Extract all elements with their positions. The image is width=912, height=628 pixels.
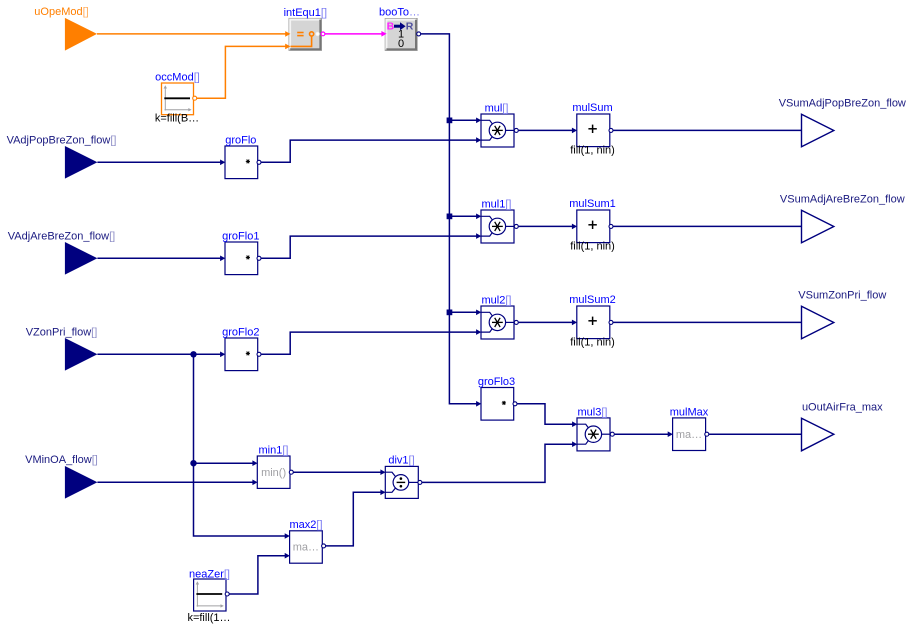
svg-text:uOpeMod[]: uOpeMod[] [34,6,88,18]
svg-text:ma…: ma… [293,542,319,554]
pin booTo.u arrow [381,31,386,37]
svg-text:ma…: ma… [676,429,702,441]
wire occMod.y to intEqu1.u2 (orange) [197,46,289,98]
output connector uOutAirFra_max [802,402,884,451]
block groFlo1 [220,230,261,274]
svg-text:mulMax: mulMax [670,406,709,418]
svg-text:k=fill(1…: k=fill(1… [187,612,230,624]
svg-text:R: R [406,21,414,33]
pin booTo.y port [417,32,421,36]
output connector VSumAdjAreBreZon_flow [780,194,905,243]
svg-text:VSumAdjAreBreZon_flow: VSumAdjAreBreZon_flow [780,194,905,206]
svg-text:groFlo: groFlo [225,134,256,146]
svg-text:div1[]: div1[] [388,455,414,467]
svg-text:mul2[]: mul2[] [482,294,512,306]
input connector VZonPri_flow[] [26,327,98,371]
block mulMax [668,406,709,450]
svg-text:occMod[]: occMod[] [155,71,200,83]
svg-text:groFlo2: groFlo2 [222,326,259,338]
svg-text:VSumAdjPopBreZon_flow: VSumAdjPopBreZon_flow [779,98,906,110]
wire mul.y to mulSum.u [519,129,575,131]
wire neaZer.y to max2.u2 [229,556,287,594]
block mulSum1 [569,198,615,252]
block mul1[] [476,198,518,243]
input connector VAdjPopBreZon_flow[] [7,135,117,179]
svg-text:min1[]: min1[] [259,444,289,456]
block groFlo [220,134,261,178]
wire VZonPri branch down to max2.u1 [194,354,288,536]
wire max2.y to div1.u2 [326,492,383,546]
svg-text:fill(1, nin): fill(1, nin) [570,145,615,157]
input connector VMinOA_flow[] [25,454,98,498]
block occMod[] (constant source, orange) [155,71,200,124]
wire VAdjPopBreZon to groFlo.u [97,161,222,163]
block max2[] [285,519,326,563]
wire groFlo3.y to mul3.u1 [517,404,574,424]
wire booTo.y bus down to groFlo3.u (navy) [421,34,479,404]
wire uOpeMod to intEqu1.u1 (orange) [97,33,289,35]
block mul2[] [476,294,518,339]
wire VAdjAreBreZon to groFlo1.u [97,257,222,259]
wire mulSum.y to VSumAdjPopBreZon_flow [613,129,801,131]
svg-text:min(): min() [261,467,286,479]
pin intEqu1.u2 arrow [285,44,290,50]
wire min1.y to div1.u1 [293,471,383,473]
svg-text:B: B [387,21,395,33]
output connector VSumZonPri_flow [798,290,886,339]
pin intEqu1.y port [321,32,325,36]
svg-text:booTo…: booTo… [379,7,420,19]
block neaZer[] (constant source) [187,568,230,623]
wire branch bus to mul1.u1 [449,215,478,217]
block mulSum [570,102,615,156]
input connector uOpeMod[] [34,6,97,51]
svg-text:mulSum: mulSum [572,102,612,114]
svg-text:max2[]: max2[] [289,519,322,531]
wire branch to min1.u1 [194,462,255,464]
wire mulSum2.y to VSumZonPri_flow [613,321,801,323]
block mulSum2 [569,294,615,348]
block min1[] [252,444,293,488]
svg-text:VAdjAreBreZon_flow[]: VAdjAreBreZon_flow[] [8,231,115,243]
svg-text:groFlo1: groFlo1 [222,230,259,242]
svg-text:mul3[]: mul3[] [578,406,608,418]
pin intEqu1.u1 arrow [285,31,290,37]
wire mulMax.y to uOutAirFra_max [709,433,802,435]
svg-text:VZonPri_flow[]: VZonPri_flow[] [26,327,98,339]
svg-text:0: 0 [398,38,404,50]
svg-text:VSumZonPri_flow: VSumZonPri_flow [798,290,886,302]
output connector VSumAdjPopBreZon_flow [779,98,906,147]
wire VZonPri to groFlo2.u [97,353,222,355]
wire groFlo2.y to mul2.u2 [261,332,479,354]
svg-text:uOutAirFra_max: uOutAirFra_max [802,402,883,414]
svg-text:fill(1, nin): fill(1, nin) [570,241,615,253]
wire branch bus to mul.u1 [449,119,478,121]
wire mul3.y to mulMax.u [615,433,671,435]
wire intEqu1.y to booTo.u (magenta) [325,33,384,35]
block groFlo2 [220,326,261,370]
svg-text:mulSum2: mulSum2 [569,294,615,306]
block div1[] (divide) [380,455,422,499]
block mul[] (multiply) [476,102,518,147]
svg-text:mulSum1: mulSum1 [569,198,615,210]
wire groFlo1.y to mul1.u2 [261,236,479,258]
input connector VAdjAreBreZon_flow[] [8,231,115,275]
junction dot VZonPri branch [190,351,196,357]
junction dot min1 branch [190,460,196,466]
svg-text:intEqu1[]: intEqu1[] [284,7,327,19]
wire mul1.y to mulSum1.u [519,225,575,227]
junction square on bus row2 [447,214,453,220]
block mul3[] [572,406,614,451]
svg-text:fill(1, nin): fill(1, nin) [570,337,615,349]
wire groFlo.y to mul.u2 [261,140,479,162]
wire mul2.y to mulSum2.u [519,321,575,323]
svg-text:mul[]: mul[] [485,102,509,114]
wire mulSum1.y to VSumAdjAreBreZon_flow [613,225,801,227]
junction square on bus row1 [447,118,453,124]
block intEqu1[] (gray bevel, integer equal) [284,7,327,50]
wire div1.y to mul3.u2 [422,444,575,482]
svg-text:neaZer[]: neaZer[] [189,568,230,580]
wire VMinOA to min1.u2 [97,481,255,483]
block booTo... (boolean to real, gray bevel) [379,7,421,51]
svg-text:k=fill(B…: k=fill(B… [155,113,199,125]
svg-text:VAdjPopBreZon_flow[]: VAdjPopBreZon_flow[] [7,135,117,147]
junction square on bus row3 [447,310,453,316]
svg-text:VMinOA_flow[]: VMinOA_flow[] [25,454,98,466]
wire branch bus to mul2.u1 [449,311,478,313]
block groFlo3 [476,376,517,420]
svg-text:mul1[]: mul1[] [482,198,512,210]
svg-text:groFlo3: groFlo3 [478,376,515,388]
